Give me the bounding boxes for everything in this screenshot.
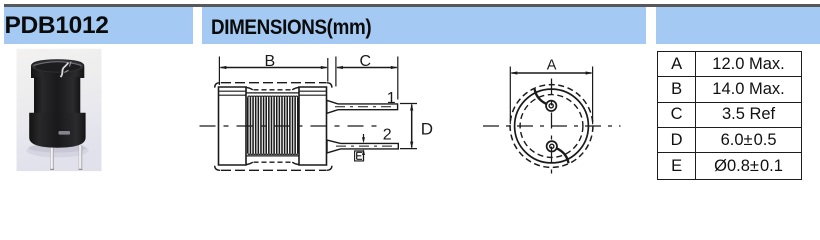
- svg-text:B: B: [265, 53, 276, 70]
- core barrel lines: [246, 93, 299, 156]
- white squiggle marking: [61, 63, 69, 77]
- flange circle solid: [515, 89, 589, 163]
- shadow under part: [27, 144, 89, 158]
- dimension D stubs: [400, 104, 417, 149]
- top rim catch light: [34, 62, 82, 66]
- table row E: [658, 153, 697, 178]
- winding bottom scallops: [248, 153, 298, 154]
- lead left: [50, 145, 54, 170]
- svg-text:1: 1: [387, 90, 396, 107]
- winding top scallops: [248, 96, 298, 97]
- bottom wire tail: [557, 148, 568, 162]
- inner circle dashed: [520, 95, 583, 158]
- lead 1 body: [338, 104, 398, 110]
- dimension D line: [411, 105, 413, 148]
- table row A: [658, 52, 697, 77]
- lead 2 centerline: [336, 145, 396, 147]
- shrink tube outer bottom dashed: [221, 169, 326, 171]
- lead 1 centerline: [335, 106, 395, 108]
- inductor bottom flange: [29, 113, 85, 148]
- dimension B line: [221, 67, 327, 69]
- shrink tube waist bottom: [246, 162, 253, 165]
- lead 1 taper: [327, 100, 338, 113]
- E label box: [355, 151, 364, 161]
- header bar right: [656, 7, 820, 45]
- inductor top flange: [31, 59, 84, 78]
- winding coil lines: [248, 97, 298, 153]
- top face of drum: [32, 60, 84, 73]
- top view vertical centerline: [551, 79, 553, 174]
- shrink tube outer bottom corners: [215, 166, 332, 171]
- dimension E leader below lead: [363, 151, 365, 161]
- table row D: [658, 128, 697, 153]
- left flange: [219, 87, 247, 165]
- photo of inductor: [0, 0, 150, 184]
- svg-text:D: D: [421, 119, 433, 138]
- technical drawings: [0, 0, 820, 184]
- dimension A extension lines: [510, 67, 592, 125]
- dimension E leader arrow above lead: [363, 134, 365, 141]
- lead right: [79, 145, 83, 170]
- top rule: [4, 4, 820, 7]
- top lead hole ring: [546, 101, 556, 111]
- dimension C line: [337, 67, 397, 69]
- dimension C extension lines: [336, 57, 398, 100]
- lead 2 body: [341, 143, 399, 149]
- dimension B extension lines: [219, 57, 327, 86]
- side view centerline: [200, 125, 377, 127]
- lead 2 taper: [327, 140, 341, 153]
- svg-text:C: C: [360, 53, 372, 70]
- right flange accent lines: [299, 91, 327, 95]
- title PDB1012: [5, 12, 109, 40]
- second marking stroke: [65, 62, 72, 73]
- title DIMENSIONS(mm): [211, 15, 371, 40]
- right flange: [299, 87, 327, 165]
- dimensions table: [657, 51, 802, 180]
- photo background: [17, 49, 102, 171]
- shrink tube outer top dashed: [221, 82, 326, 84]
- svg-text:A: A: [547, 58, 557, 74]
- left flange accent lines: [219, 91, 247, 95]
- svg-text:2: 2: [383, 126, 392, 143]
- top view: dimension A line: [511, 72, 591, 74]
- outer tube circle dashed: [510, 85, 593, 168]
- table row C: [658, 103, 697, 128]
- faint label on body: [59, 131, 71, 135]
- header bar PDB1012: [4, 7, 194, 45]
- table row B: [658, 77, 697, 102]
- shrink tube waist top: [246, 87, 253, 90]
- inductor waist tube: [34, 77, 80, 114]
- top wire tail: [535, 90, 546, 104]
- bottom lead hole ring: [547, 141, 557, 151]
- header bar DIMENSIONS: [202, 7, 646, 45]
- shrink tube outer top corners: [215, 83, 332, 88]
- top view horizontal centerline: [483, 125, 621, 127]
